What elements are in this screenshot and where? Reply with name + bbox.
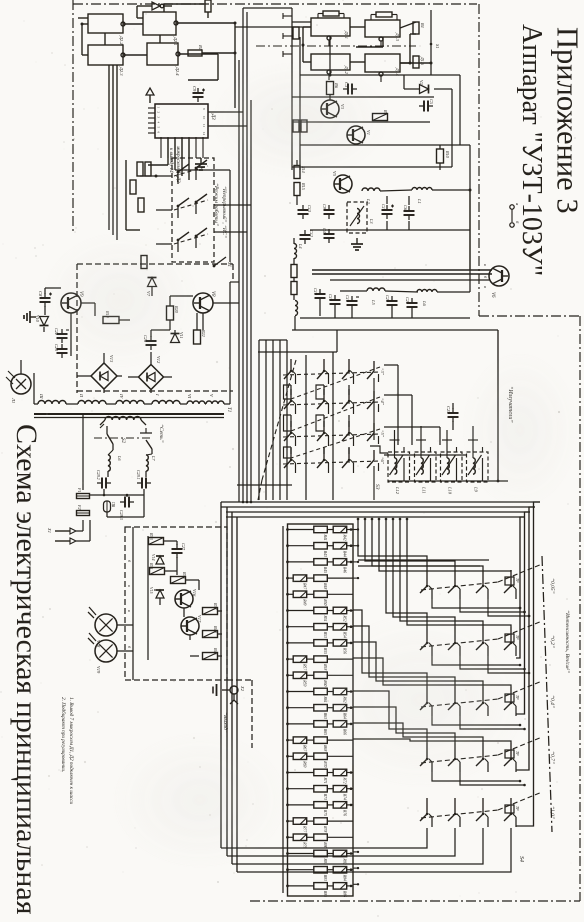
svg-text:R76: R76 bbox=[343, 809, 347, 816]
wire horizontal rail y122 bbox=[292, 121, 430, 123]
maze g2 feed 3 bbox=[400, 519, 483, 627]
label 0,2 bbox=[549, 635, 556, 648]
svg-text:R31: R31 bbox=[149, 562, 154, 570]
svg-text:“0,05”: “0,05” bbox=[549, 578, 556, 594]
maze g3 feed 3 bbox=[353, 642, 483, 687]
svg-text:C28.3: C28.3 bbox=[119, 510, 124, 520]
svg-text:“Выход”: “Выход” bbox=[222, 712, 229, 733]
title Prilozhenie 3 bbox=[551, 27, 584, 214]
pin v bbox=[483, 264, 488, 288]
capacitor C20 bbox=[385, 295, 398, 310]
resistor R18 bbox=[291, 282, 297, 295]
svg-text:R53: R53 bbox=[323, 631, 327, 638]
chassis border right lower bbox=[579, 316, 581, 901]
transistor V9 bbox=[61, 291, 83, 313]
label -3- bbox=[380, 368, 385, 376]
svg-text:1. Вывод 7 микросхем Д1, Д2: 1. Вывод 7 микросхем Д1, Д2 подключен к … bbox=[68, 697, 75, 805]
resistor pair row R77 R78 bbox=[286, 818, 353, 834]
svg-text:L3: L3 bbox=[369, 218, 374, 223]
bus left rail 1 bbox=[220, 502, 222, 848]
wire bbox=[350, 26, 365, 28]
svg-text:C13: C13 bbox=[307, 205, 312, 212]
svg-text:C27: C27 bbox=[181, 543, 186, 551]
wire bbox=[329, 36, 332, 77]
svg-text:R34: R34 bbox=[182, 571, 187, 579]
svg-text:R78: R78 bbox=[323, 825, 327, 832]
IC box D2.1 bbox=[143, 12, 178, 46]
wire y230 rail bbox=[310, 229, 470, 231]
stub contact a bbox=[283, 13, 292, 19]
capacitor C19 bbox=[345, 295, 359, 310]
IC D3 pin stub bbox=[148, 112, 161, 114]
choke L7 bbox=[146, 455, 156, 472]
svg-text:“Режим работы”: “Режим работы” bbox=[213, 183, 220, 226]
transistor V5 bbox=[332, 171, 352, 193]
maze return g1 b bbox=[460, 599, 526, 613]
svg-text:R67: R67 bbox=[303, 744, 307, 752]
svg-text:IV: IV bbox=[119, 393, 124, 399]
switch group S4.5 bbox=[420, 792, 542, 827]
resistor pair row R85 R86 bbox=[286, 883, 353, 898]
wire feed L10 bbox=[442, 430, 452, 452]
maze g4 feed 2 bbox=[353, 707, 455, 743]
chassis border right upper bbox=[478, 4, 480, 316]
IC box D2.2 bbox=[88, 14, 125, 45]
label S2 bbox=[120, 438, 125, 444]
resistor R7 bbox=[373, 109, 389, 121]
resistor pair row R43 R44 bbox=[286, 543, 353, 557]
choke L6 bbox=[108, 455, 122, 472]
svg-text:S3: S3 bbox=[374, 484, 380, 490]
resistor R1 bbox=[188, 44, 203, 56]
label S3 bbox=[374, 484, 380, 490]
wire bbox=[291, 385, 349, 395]
bus horizontal 3 bbox=[226, 511, 530, 513]
transformer T1 winding I bbox=[152, 393, 180, 404]
svg-text:R15: R15 bbox=[301, 182, 306, 190]
svg-text:11: 11 bbox=[202, 124, 206, 127]
wire top link bbox=[0, 0, 1, 1]
switch S1.2 contact bbox=[177, 198, 189, 218]
maze g5 feed 3 bbox=[232, 828, 483, 864]
wire bbox=[404, 75, 419, 89]
svg-text:R70: R70 bbox=[323, 760, 327, 767]
svg-text:C10: C10 bbox=[381, 204, 386, 212]
switch linkage dashdot bbox=[256, 45, 416, 47]
maze return g4 a bbox=[432, 772, 521, 782]
svg-text:C5: C5 bbox=[429, 99, 434, 104]
transformer T1 winding II bbox=[78, 393, 106, 404]
bus horizontal 1 bbox=[221, 501, 540, 503]
svg-text:R83: R83 bbox=[323, 874, 327, 881]
ground bbox=[24, 311, 36, 323]
wire bbox=[434, 89, 452, 167]
svg-text:R73: R73 bbox=[323, 793, 327, 800]
resistor R5 bbox=[413, 56, 425, 68]
label T1 bbox=[226, 407, 231, 412]
svg-text:C21: C21 bbox=[405, 297, 410, 304]
svg-text:L10: L10 bbox=[448, 486, 453, 495]
resistor R45 bbox=[203, 647, 219, 660]
S1 dashed zigzag 2 bbox=[291, 397, 380, 431]
diode V7 bbox=[146, 278, 157, 297]
svg-text:R40: R40 bbox=[213, 625, 218, 634]
title Apparat UZT-103U bbox=[516, 24, 547, 276]
svg-text:“5”: “5” bbox=[380, 430, 385, 438]
svg-text:б: б bbox=[127, 646, 132, 649]
wire bbox=[164, 4, 204, 12]
transistor V16 bbox=[175, 589, 197, 608]
wire row3 out bbox=[384, 365, 398, 445]
wire bbox=[44, 288, 61, 332]
wire bbox=[387, 196, 409, 230]
label Intensivnost bbox=[564, 610, 571, 673]
svg-text:R51: R51 bbox=[323, 615, 327, 622]
wire bbox=[229, 170, 231, 262]
power dashed box bbox=[77, 264, 233, 393]
emitter common bus bbox=[388, 480, 508, 482]
svg-text:L11: L11 bbox=[422, 486, 427, 494]
wire row6 out bbox=[384, 454, 466, 456]
wire bbox=[400, 22, 416, 28]
bus junction dots bbox=[242, 501, 409, 521]
pin b bbox=[510, 221, 520, 227]
wire bbox=[148, 138, 168, 165]
transformer T1 winding VI bbox=[187, 394, 205, 404]
maze g4 feed 4 bbox=[353, 739, 511, 743]
junction bbox=[234, 22, 237, 25]
resistor pair row R75 R76 bbox=[286, 802, 353, 817]
svg-text:C23: C23 bbox=[54, 344, 59, 351]
svg-text:Д2.3: Д2.3 bbox=[119, 66, 124, 76]
maze return g3 a bbox=[432, 716, 521, 726]
svg-text:C20: C20 bbox=[385, 295, 390, 303]
column right stubs bbox=[353, 528, 359, 885]
resistor R2a top pill bbox=[318, 11, 344, 18]
maze return g2 b bbox=[460, 656, 526, 670]
svg-text:R77: R77 bbox=[303, 825, 307, 833]
svg-text:R75: R75 bbox=[323, 809, 327, 816]
svg-text:L5: L5 bbox=[371, 299, 376, 306]
switch S1 row 4 bbox=[283, 448, 380, 473]
svg-text:V19: V19 bbox=[96, 666, 101, 674]
wire bbox=[294, 160, 297, 330]
label Vyhod bbox=[222, 712, 229, 733]
capacitor C28.2 bbox=[96, 470, 111, 489]
maze g5 feed 1 bbox=[221, 828, 427, 848]
rectifier bridge V13 bbox=[91, 355, 117, 389]
inductor L3 variable bbox=[347, 202, 374, 233]
IC D3 pin wire bbox=[202, 137, 204, 158]
svg-text:ТР: ТР bbox=[515, 751, 519, 756]
resistor R13 bbox=[138, 198, 144, 212]
label Rezhim raboty bbox=[213, 183, 220, 226]
wire bbox=[175, 138, 230, 170]
wire bbox=[151, 296, 197, 337]
wire S1 step a bbox=[284, 385, 292, 399]
svg-text:VI: VI bbox=[187, 394, 192, 399]
IC box D1.4 bbox=[365, 54, 400, 82]
wire bbox=[380, 189, 472, 192]
IC D3 pin stub bbox=[148, 127, 161, 129]
svg-text:б: б bbox=[483, 276, 488, 279]
svg-text:C12: C12 bbox=[309, 230, 314, 237]
svg-text:S2: S2 bbox=[120, 438, 125, 444]
svg-text:R85: R85 bbox=[323, 890, 327, 897]
svg-text:C19: C19 bbox=[345, 295, 350, 303]
inductor L4b bbox=[295, 301, 298, 316]
svg-text:6: 6 bbox=[157, 132, 161, 134]
diode V2 bbox=[419, 80, 429, 94]
svg-text:Аппарат "УЗТ-103У": Аппарат "УЗТ-103У" bbox=[516, 24, 547, 276]
svg-text:V16: V16 bbox=[192, 589, 197, 597]
wire bbox=[104, 33, 106, 45]
IC D3 pin stub bbox=[148, 117, 161, 119]
wire bbox=[469, 190, 471, 292]
svg-text:C9: C9 bbox=[322, 204, 327, 210]
wire S1 right drop 2 bbox=[373, 466, 375, 500]
bus right bend 1 bbox=[516, 502, 540, 826]
svg-text:5: 5 bbox=[157, 127, 161, 129]
IC D3 bbox=[155, 104, 215, 138]
svg-text:Л1: Л1 bbox=[11, 397, 16, 403]
svg-text:Д2.4: Д2.4 bbox=[175, 66, 180, 76]
wire bbox=[356, 37, 383, 47]
switch S1.3 contact b bbox=[195, 228, 207, 248]
resistor pair row R69 R70 bbox=[286, 753, 353, 768]
IC D3 pin stub bbox=[148, 132, 161, 134]
capacitor C18 bbox=[328, 294, 341, 309]
wire S1 step c bbox=[284, 447, 292, 458]
resistor R11 bbox=[137, 162, 143, 176]
wire bbox=[137, 6, 143, 18]
resistor R31 bbox=[149, 562, 165, 575]
svg-text:ТР: ТР bbox=[515, 635, 519, 640]
resistor R3 in bbox=[293, 27, 299, 39]
svg-text:R69: R69 bbox=[303, 760, 307, 767]
maze g4 feed 3 bbox=[353, 723, 483, 743]
svg-text:L12: L12 bbox=[395, 486, 400, 495]
wire emitter entry bbox=[370, 446, 388, 453]
wire horizontal rail y75 bbox=[300, 74, 460, 76]
IC box D1.1 bbox=[311, 18, 350, 46]
bus rail C bbox=[250, 100, 252, 502]
IC D3 pin wire bbox=[167, 137, 169, 158]
IC box D1.2 bbox=[311, 54, 350, 80]
svg-text:C28.1: C28.1 bbox=[136, 470, 141, 480]
svg-text:L6: L6 bbox=[117, 455, 122, 461]
bus left rail 3 bbox=[231, 512, 233, 864]
coax line upper bbox=[312, 270, 492, 274]
wire y330 rail bbox=[292, 329, 498, 331]
wire bbox=[78, 18, 88, 26]
diode V14 bbox=[151, 554, 164, 564]
wire bbox=[109, 160, 117, 240]
emitter return rail bbox=[497, 330, 500, 482]
bus right bend 4 bbox=[516, 517, 525, 658]
mode cluster dashed box bbox=[172, 158, 214, 262]
wire bbox=[123, 23, 143, 25]
wire horizontal rail y167 bbox=[292, 166, 452, 168]
wire bbox=[77, 352, 172, 393]
bus horizontal 4 bbox=[226, 516, 525, 518]
switch S2 contact left bbox=[100, 424, 113, 450]
bus right bend 3 bbox=[516, 512, 530, 714]
wire feed L12 bbox=[390, 430, 400, 452]
svg-text:F2: F2 bbox=[77, 504, 82, 510]
connector X2 bbox=[230, 685, 245, 704]
resistor pair row R47 R48 bbox=[286, 575, 353, 590]
wire S1 step d bbox=[316, 385, 324, 399]
IC D3 pin wire bbox=[160, 137, 162, 158]
maze g3 feed 2 bbox=[353, 626, 455, 687]
capacitor C23 bbox=[54, 344, 68, 358]
wire y318 rail bbox=[300, 317, 470, 319]
emitter inductor L10 dashed box bbox=[441, 447, 463, 495]
svg-text:I: I bbox=[155, 393, 160, 396]
wire S1 step e bbox=[316, 415, 324, 431]
svg-text:R72: R72 bbox=[343, 777, 347, 784]
svg-text:Д1.3: Д1.3 bbox=[395, 32, 400, 41]
svg-text:“Непрерывный”, “ИС”: “Непрерывный”, “ИС” bbox=[221, 186, 228, 238]
capacitor C5 bbox=[419, 99, 434, 112]
resistor pair row R45 R46 bbox=[286, 559, 353, 574]
switch S2 linkage bbox=[94, 437, 150, 439]
svg-text:9: 9 bbox=[202, 108, 206, 110]
resistor pair row R79 R80 bbox=[286, 834, 353, 849]
title Shema elektricheskaya principialnaya bbox=[10, 424, 43, 915]
resistor column box bbox=[288, 524, 354, 896]
capacitor C12 bbox=[300, 230, 315, 244]
svg-text:R42: R42 bbox=[343, 534, 347, 541]
svg-text:Д1.1: Д1.1 bbox=[344, 30, 349, 39]
svg-text:Т1: Т1 bbox=[226, 407, 231, 412]
wire S1 pole 1 bbox=[305, 355, 307, 500]
resistor R34 bbox=[171, 571, 188, 584]
IC D3 pin stub bbox=[148, 122, 161, 124]
S1 dashed zigzag 3 bbox=[291, 429, 380, 458]
resistor pair row R81 R82 bbox=[286, 850, 353, 865]
chassis border step bbox=[479, 315, 580, 317]
svg-text:R71: R71 bbox=[323, 777, 327, 784]
wire bbox=[132, 527, 134, 680]
resistor R8 bbox=[293, 120, 299, 132]
transformer T1 winding III bbox=[38, 393, 66, 404]
resistor R10 bbox=[130, 180, 136, 194]
bus rail A bbox=[242, 8, 244, 502]
transistor V1 bbox=[347, 126, 371, 144]
label -5- bbox=[380, 430, 385, 438]
IC D3 pin wire bbox=[174, 137, 176, 158]
maze g4 feed 1 bbox=[353, 691, 427, 743]
svg-text:Х1: Х1 bbox=[47, 527, 52, 533]
capacitor C9 bbox=[192, 86, 205, 102]
emitter inductor L9 dashed box bbox=[467, 447, 489, 493]
label -6- bbox=[380, 457, 385, 465]
resistor R4 bbox=[413, 22, 425, 34]
ground bbox=[195, 158, 207, 170]
wire bbox=[81, 303, 95, 316]
diode V15 zener bbox=[149, 587, 164, 598]
svg-text:V2: V2 bbox=[419, 80, 424, 85]
wire horizontal rail y97 bbox=[292, 96, 434, 98]
maze g3 feed 4 bbox=[353, 658, 511, 687]
switch S1 row 1 bbox=[283, 359, 380, 384]
node S1 mark bbox=[430, 43, 440, 49]
IC D3 pin wire bbox=[195, 137, 197, 158]
svg-text:R50: R50 bbox=[323, 598, 327, 605]
wire bbox=[340, 291, 470, 292]
pin labels bbox=[127, 560, 132, 649]
wire link mode 1 bbox=[214, 204, 251, 206]
resistor R22 bbox=[194, 329, 207, 344]
S1 dashed zigzag 1 bbox=[291, 367, 380, 399]
ground bbox=[351, 238, 363, 250]
inductor L6 bbox=[417, 290, 437, 307]
maze g1 feed 4 bbox=[379, 519, 511, 571]
label S4 bbox=[518, 856, 525, 862]
svg-text:Д2.2: Д2.2 bbox=[119, 35, 124, 45]
inductor L4 bbox=[294, 243, 303, 259]
wire S1 pole 2 bbox=[332, 352, 334, 500]
wire bbox=[292, 21, 311, 23]
maze return g3 b bbox=[460, 716, 526, 730]
wire bbox=[350, 61, 365, 63]
switch S1 row 3 bbox=[283, 421, 380, 446]
IC D3 right pins bbox=[202, 108, 206, 136]
resistor R20 bbox=[167, 305, 180, 320]
maze return g4 b bbox=[460, 772, 526, 786]
resistor R33 bbox=[149, 532, 164, 545]
lamp V18 bbox=[88, 607, 117, 648]
resistor R37 bbox=[203, 602, 219, 615]
svg-text:S4: S4 bbox=[518, 856, 525, 862]
resistor R19 bbox=[103, 310, 119, 324]
resistor pair row R65 R66 bbox=[286, 721, 353, 736]
capacitor C26 bbox=[143, 335, 157, 350]
svg-text:“Сеть”: “Сеть” bbox=[158, 424, 165, 443]
coax stub bbox=[330, 279, 490, 281]
resistor R2 bbox=[205, 0, 211, 18]
svg-text:R44: R44 bbox=[343, 550, 347, 557]
resistor R12 bbox=[145, 162, 151, 176]
svg-text:L7: L7 bbox=[151, 455, 156, 461]
switch S1.1 contact b bbox=[195, 160, 207, 180]
svg-text:“Интенсивность, Вт/см²”: “Интенсивность, Вт/см²” bbox=[564, 610, 571, 673]
wire bbox=[109, 65, 117, 160]
maze return g2 c bbox=[488, 656, 530, 674]
resistor pair row R51 R52 bbox=[286, 607, 353, 622]
svg-text:R10: R10 bbox=[445, 150, 450, 159]
svg-text:R84: R84 bbox=[343, 874, 347, 881]
inductor L5 bbox=[367, 288, 385, 306]
switch group S4.2 bbox=[420, 621, 542, 656]
bus left rail 4 bbox=[236, 517, 238, 872]
svg-text:“0,2”: “0,2” bbox=[549, 635, 556, 648]
wire link D3 right 2 bbox=[208, 125, 247, 127]
svg-text:R57: R57 bbox=[303, 663, 307, 671]
wire horizontal rail y145 bbox=[300, 144, 470, 146]
maze g2 feed 4 bbox=[407, 519, 511, 627]
label 1,0 bbox=[549, 806, 556, 819]
maze g1 feed 2 bbox=[365, 519, 455, 570]
wire bbox=[147, 536, 149, 660]
svg-text:R4: R4 bbox=[420, 22, 425, 28]
switch S1.3 contact bbox=[177, 232, 189, 252]
resistor pair row R71 R72 bbox=[286, 769, 353, 784]
node K vyvodu note bbox=[168, 145, 180, 183]
capacitor C17 bbox=[313, 288, 326, 303]
